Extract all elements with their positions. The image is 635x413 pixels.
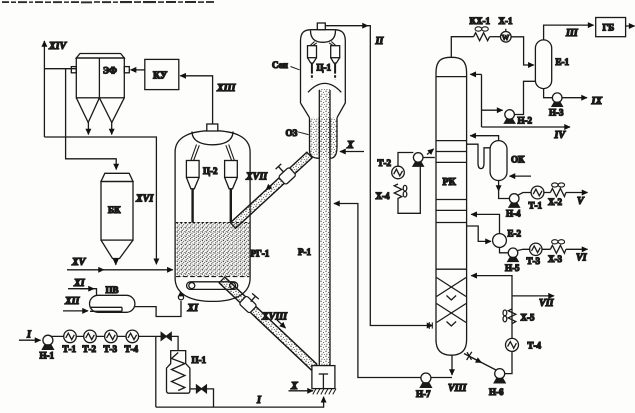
cyclone C-2 right (203, 161, 237, 223)
svg-text:XV: XV (71, 257, 87, 268)
gas block GB (596, 18, 626, 37)
stream I line to riser base (156, 395, 324, 407)
scan noise top edge (2, 1, 214, 3)
svg-text:Н-7: Н-7 (416, 389, 431, 399)
side draw to stripper E-2 (467, 226, 491, 241)
steam stub into OK (510, 175, 532, 177)
stream II feed nozzle flanges (429, 322, 432, 329)
svg-text:V: V (577, 196, 585, 207)
svg-text:Т-2: Т-2 (378, 158, 392, 168)
svg-text:Т-3: Т-3 (104, 344, 118, 354)
svg-text:XIV: XIV (48, 41, 68, 52)
pump N-7 (416, 373, 452, 399)
svg-text:XIII: XIII (216, 83, 236, 94)
wire KU to EF (131, 69, 145, 71)
stream XV line to regenerator (67, 257, 173, 270)
svg-text:ЭФ: ЭФ (103, 66, 117, 76)
svg-text:Н-4: Н-4 (506, 209, 521, 219)
svg-text:XVII: XVII (245, 172, 268, 183)
air cooler X-4 (376, 184, 407, 204)
valve on furnace inlet (156, 333, 178, 351)
catalyst bed in regenerator (176, 223, 250, 277)
stream II reactor overhead to column (325, 26, 432, 326)
condenser KH-1 (470, 16, 491, 41)
furnace P-1 (167, 351, 207, 394)
svg-text:Х-2: Х-2 (548, 197, 562, 207)
valve on furnace outlet (190, 385, 214, 407)
pumparound draw to T-2 (398, 166, 420, 214)
svg-text:Н-6: Н-6 (489, 387, 504, 397)
stream X steam into riser base (289, 381, 314, 392)
heat exchanger T-1 right (529, 186, 544, 210)
pump N-1 (40, 335, 55, 360)
svg-text:VII: VII (539, 298, 555, 309)
E-2 bottoms to pump N-5 (500, 247, 509, 252)
riser outlet cap arc (308, 83, 341, 92)
svg-text:П-1: П-1 (192, 355, 207, 365)
steam drum PV (90, 285, 135, 312)
heat exchanger T-1 (63, 330, 77, 354)
slide valve on XVIII (239, 293, 288, 328)
svg-text:Н-1: Н-1 (40, 351, 55, 361)
svg-text:ГБ: ГБ (603, 23, 615, 33)
svg-text:XVIII: XVIII (261, 312, 288, 323)
stream V line (518, 193, 588, 196)
slide valve on XVII (245, 164, 296, 190)
E-2 vapor return to column (471, 214, 499, 233)
waste heat boiler KU (145, 59, 179, 89)
slurry recycle from N-7 to riser (334, 204, 421, 378)
svg-text:Н-3: Н-3 (549, 108, 564, 118)
svg-text:Ц-2: Ц-2 (203, 166, 218, 176)
svg-text:ОЗ: ОЗ (286, 128, 298, 138)
cooler X-1 (490, 16, 513, 42)
heat exchanger T-2 (83, 330, 97, 354)
reflux line into column top (470, 74, 481, 127)
column trays (436, 77, 467, 270)
cyclone C-1 left (308, 46, 317, 80)
stream XIV arrow (flue gas to stack) (44, 41, 67, 137)
pump N-3 (549, 93, 564, 118)
svg-text:IV: IV (554, 130, 567, 141)
svg-text:Н-2: Н-2 (518, 116, 533, 126)
electrostatic filter EF (71, 54, 129, 135)
svg-text:X: X (346, 140, 354, 151)
cyclone hangers reactor (310, 42, 336, 46)
column packing chevrons (437, 278, 467, 327)
svg-text:Н-5: Н-5 (505, 263, 520, 273)
stream X steam into stripper (340, 140, 364, 152)
svg-text:РГ-1: РГ-1 (251, 249, 270, 259)
heat exchanger T-2 pumparound (378, 158, 405, 179)
svg-text:Х-5: Х-5 (521, 313, 535, 323)
reflux drum E-1 (535, 40, 569, 89)
svg-text:III: III (565, 28, 579, 39)
riser reactor R-1 dotted tube (298, 89, 330, 366)
stream IX product (562, 96, 602, 107)
reactor separator vessel (301, 23, 346, 118)
bed grid dashed line (176, 276, 249, 278)
svg-text:Т-1: Т-1 (529, 201, 543, 211)
stripper drum E-2 (493, 229, 522, 248)
N-2 discharge to E-1 (514, 81, 535, 114)
svg-text:ОК: ОК (511, 155, 525, 165)
wire furnace bypass down (155, 336, 157, 407)
air cooler X-2 (548, 183, 566, 207)
air cooler X-5 (503, 309, 535, 324)
stream III to gas block (544, 25, 594, 40)
reactor inner plenum (311, 31, 336, 43)
pump N-5 (505, 248, 520, 273)
OK bottoms to pump N-4 (499, 181, 510, 199)
stripping zone tube OZ (286, 118, 338, 159)
svg-text:ПВ: ПВ (106, 285, 119, 295)
svg-text:Сеп: Сеп (272, 60, 288, 70)
svg-text:БК: БК (108, 205, 121, 215)
svg-text:КХ-1: КХ-1 (470, 16, 491, 26)
heat exchanger T-3 right (527, 243, 543, 266)
cyclone hangers (191, 145, 235, 161)
stream VI line (518, 249, 588, 250)
wire EF left nozzle to XIV line (44, 68, 76, 70)
svg-text:Р-1: Р-1 (298, 247, 311, 257)
svg-text:Т-1: Т-1 (63, 344, 77, 354)
pump N-6 (489, 369, 505, 397)
regenerator inner plenum dome (192, 132, 233, 145)
regenerator top nozzle (207, 124, 218, 131)
regenerator RG-1 vessel (175, 131, 270, 302)
bunker BK (101, 173, 154, 264)
wire EF hopper dust collection line (44, 137, 156, 264)
stream XII arrow into PV (63, 296, 88, 311)
wire branch to BK bunker (66, 69, 117, 170)
regenerated catalyst standpipe XVIII (219, 277, 317, 370)
stream XI arrow into PV (68, 278, 97, 295)
svg-text:I: I (26, 330, 32, 341)
wire PV to regenerator bottom, stream XI (135, 291, 199, 317)
air distributor (187, 282, 238, 290)
cyclone C-1 right (317, 46, 340, 80)
riser base box (312, 366, 335, 389)
pumparound pump (398, 149, 435, 166)
svg-text:КУ: КУ (153, 71, 168, 82)
E-1 bottoms to N-3 (544, 89, 553, 98)
wire to pump N-2 (482, 109, 503, 111)
ground hatching under riser base (313, 389, 336, 395)
stream IV product (482, 127, 571, 141)
svg-text:Е-1: Е-1 (556, 57, 570, 67)
svg-text:XI: XI (73, 278, 86, 289)
svg-text:Т-3: Т-3 (527, 256, 541, 266)
cyclone C-2 left (186, 161, 199, 223)
svg-text:Х-1: Х-1 (499, 16, 513, 26)
svg-text:W: W (502, 33, 510, 42)
svg-text:II: II (375, 36, 385, 47)
svg-text:Т-4: Т-4 (528, 341, 542, 351)
column side draw seal loop to OK (467, 144, 491, 168)
column overhead line to KH-1 (451, 37, 473, 58)
svg-text:Т-2: Т-2 (83, 344, 97, 354)
stripper OK (490, 141, 525, 181)
svg-text:VI: VI (576, 253, 588, 264)
svg-text:Х-3: Х-3 (548, 254, 562, 264)
heat exchanger T-3 (104, 330, 118, 354)
svg-text:Ц-1: Ц-1 (317, 63, 332, 73)
feed line through exchanger train (50, 335, 156, 337)
bottoms draw to pump N-6 (464, 352, 496, 370)
pump N-4 (506, 194, 521, 219)
OK vapor return to column (470, 136, 498, 141)
svg-text:Т-4: Т-4 (125, 344, 139, 354)
svg-text:РК: РК (443, 177, 457, 188)
wire X-1 to E-1 (511, 37, 534, 65)
bottom circulating reflux line (471, 276, 512, 374)
spent catalyst standpipe XVII (230, 152, 312, 228)
svg-text:Х-4: Х-4 (376, 191, 390, 201)
column bottoms line VIII (448, 355, 467, 394)
rectification column RK (436, 57, 467, 355)
Sep label (272, 60, 300, 70)
wire XIII regenerator to KU (180, 76, 236, 124)
stream I feed arrow (19, 330, 41, 341)
svg-text:Е-2: Е-2 (508, 229, 522, 239)
heat exchanger T-4 (125, 330, 139, 354)
heat exchanger T-4 right (506, 338, 542, 351)
svg-text:I: I (256, 395, 262, 406)
stream VII product (512, 296, 555, 309)
pump N-2 (504, 110, 532, 126)
svg-text:XI: XI (187, 303, 200, 314)
gas block outlet (626, 25, 635, 27)
svg-text:IX: IX (591, 96, 603, 107)
svg-text:VIII: VIII (448, 383, 467, 394)
svg-text:XVI: XVI (135, 194, 154, 205)
svg-text:XII: XII (64, 296, 81, 307)
air cooler X-3 (548, 240, 566, 264)
